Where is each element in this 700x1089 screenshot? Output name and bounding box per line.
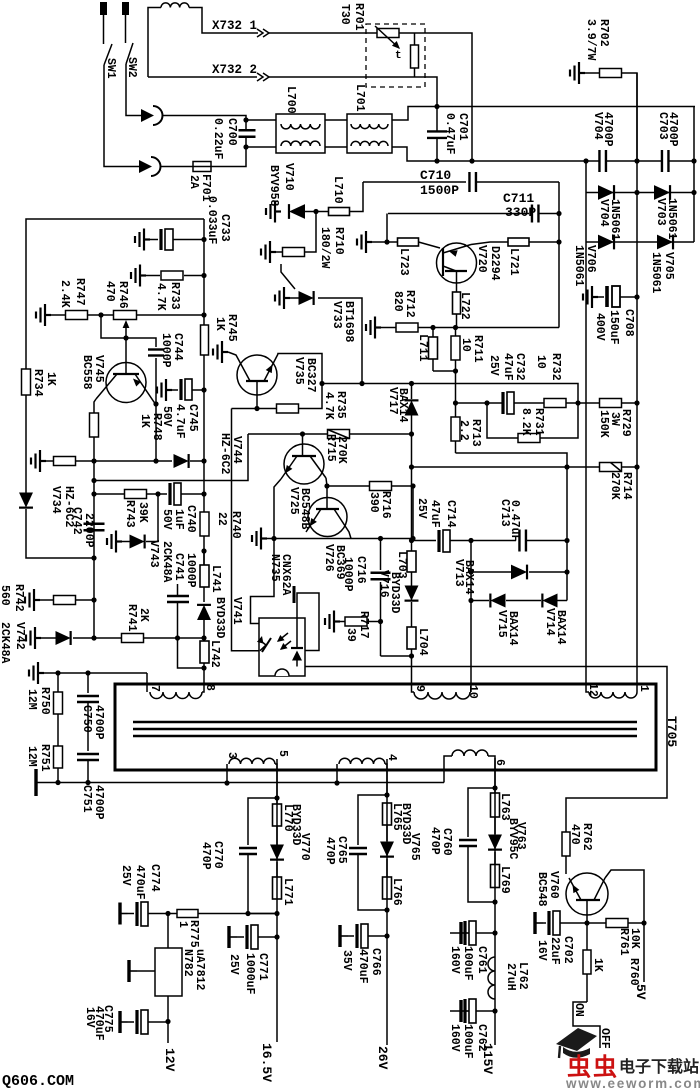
connector X732 pin 1 (257, 29, 263, 37)
bead L711 (429, 337, 438, 359)
svg-text:C708: C708 (622, 309, 635, 337)
svg-text:22: 22 (215, 512, 228, 526)
svg-text:160V: 160V (448, 1024, 461, 1052)
potentiometer R746 (114, 311, 137, 320)
wire (44, 672, 147, 674)
wire (93, 461, 95, 558)
svg-text:47uF: 47uF (428, 500, 441, 528)
svg-text:0.47uF: 0.47uF (508, 500, 521, 542)
svg-text:N782: N782 (181, 949, 194, 977)
svg-text:C750: C750 (80, 705, 93, 733)
svg-text:BYD33D: BYD33D (213, 597, 226, 639)
wire (433, 327, 559, 329)
svg-text:22uF: 22uF (548, 937, 561, 965)
bead L710 (329, 208, 350, 216)
svg-text:L763: L763 (498, 793, 511, 821)
svg-text:C766: C766 (369, 948, 382, 976)
diode V717 BAX14 (405, 400, 419, 415)
svg-text:C733: C733 (218, 214, 231, 242)
capacitor C740 (168, 483, 171, 505)
svg-text:8: 8 (203, 684, 216, 691)
wire (93, 558, 95, 638)
svg-text:3.9/7W: 3.9/7W (584, 19, 597, 61)
svg-text:470P: 470P (323, 837, 336, 865)
svg-text:10: 10 (534, 355, 547, 369)
wire bridge right rail (693, 107, 695, 243)
svg-text:BAX14: BAX14 (554, 610, 567, 645)
resistor R710 (304, 212, 316, 253)
zener V744 HZ-6C2 (174, 454, 189, 468)
svg-text:C745: C745 (186, 404, 199, 432)
svg-text:L723: L723 (397, 248, 410, 276)
svg-text:D2294: D2294 (488, 246, 501, 281)
capacitor C775 (120, 1011, 128, 1033)
wire rectified minus rail (585, 242, 587, 684)
wire left rail top (26, 219, 204, 369)
svg-text:V720: V720 (475, 245, 488, 273)
resistor R748 (94, 399, 96, 413)
svg-text:BT1698: BT1698 (342, 301, 355, 343)
svg-text:V765: V765 (408, 833, 421, 861)
svg-text:R760: R760 (627, 958, 640, 986)
winding 3-5 (226, 764, 228, 783)
line filter L701 (347, 114, 392, 153)
svg-text:2K: 2K (137, 608, 150, 622)
capacitor C750 4700P (87, 673, 89, 693)
wire V725 emitter to LED (251, 539, 275, 624)
svg-text:270K: 270K (335, 436, 348, 464)
svg-text:2A: 2A (187, 175, 200, 189)
svg-text:电子下载站: 电子下载站 (619, 1057, 699, 1076)
svg-text:7: 7 (148, 685, 161, 692)
capacitor C702 (535, 912, 543, 934)
svg-text:SW2: SW2 (125, 57, 138, 78)
winding 12-1 (586, 684, 589, 692)
resistor R750 12M (54, 692, 63, 714)
svg-text:C716: C716 (354, 556, 367, 584)
svg-text:115V: 115V (480, 1043, 495, 1074)
svg-text:4700P: 4700P (92, 705, 105, 740)
transistor V760 BC548 (566, 873, 608, 915)
bead L766 (383, 877, 392, 899)
svg-text:1N5061: 1N5061 (649, 252, 662, 294)
transistor V735 BC327 (237, 355, 277, 395)
inductor L762 27uH (488, 957, 495, 999)
svg-text:R701: R701 (352, 3, 365, 31)
wire phototransistor collector to V760 (305, 667, 667, 833)
resistor R747 (36, 304, 51, 326)
diode V741 BYD33D (197, 605, 211, 620)
resistor R775 (177, 910, 198, 918)
svg-text:3W: 3W (608, 412, 621, 426)
svg-text:R743: R743 (123, 500, 136, 528)
wire (372, 241, 387, 243)
transistor V726 BC369 (308, 498, 347, 537)
svg-text:BYV958: BYV958 (267, 165, 280, 207)
svg-text:V735: V735 (292, 357, 305, 385)
resistor R734 (22, 369, 31, 395)
svg-text:R731: R731 (532, 408, 545, 436)
bead L723 (398, 238, 419, 246)
svg-text:BC327: BC327 (304, 358, 317, 393)
svg-text:2CK48A: 2CK48A (160, 541, 173, 583)
svg-text:C710: C710 (420, 168, 451, 183)
svg-text:R734: R734 (31, 369, 44, 397)
bead L763 (491, 793, 500, 817)
wire (636, 404, 638, 688)
bead L703 (407, 551, 416, 572)
svg-text:V705: V705 (662, 252, 675, 280)
bead L704 (407, 627, 416, 649)
wire (322, 383, 362, 385)
svg-text:400V: 400V (593, 313, 606, 341)
resistor R745 (201, 325, 209, 355)
resistor R733 (131, 265, 146, 287)
diode V706 1N5061 (586, 241, 694, 243)
transistor V745 BC558 (106, 363, 146, 403)
svg-text:35V: 35V (340, 950, 353, 971)
svg-text:470P: 470P (428, 827, 441, 855)
svg-text:1K: 1K (138, 414, 151, 428)
svg-text:12: 12 (586, 683, 599, 697)
svg-text:150uF: 150uF (607, 310, 620, 345)
wire (101, 315, 126, 338)
bead L765 (383, 803, 392, 825)
svg-text:270K: 270K (608, 472, 621, 500)
svg-text:R741: R741 (125, 604, 138, 632)
line filter L700 (276, 114, 325, 153)
bead L722 (453, 292, 461, 314)
capacitor C741 (167, 596, 189, 602)
diode V743 2CK48A (107, 531, 122, 553)
svg-text:R732: R732 (549, 353, 562, 381)
switch ON/OFF (573, 1002, 600, 1048)
svg-text:4700P: 4700P (666, 112, 679, 147)
resistor R731b (487, 403, 518, 438)
wire bridge left rail (585, 161, 587, 242)
svg-text:1000uF: 1000uF (243, 953, 256, 995)
resistor R751 12M (54, 746, 63, 768)
diode V710 BYV958 (266, 201, 281, 223)
wire (274, 479, 281, 539)
svg-text:C714: C714 (444, 500, 457, 528)
wire (167, 996, 169, 1043)
wire (325, 119, 347, 121)
svg-text:R710: R710 (332, 227, 345, 255)
diode V765 BYD33D (380, 842, 394, 857)
capacitor C761 (461, 922, 469, 944)
winding 9-10 (412, 649, 415, 692)
transistor V720 D2294 (437, 243, 477, 283)
secondary ground bus (36, 782, 444, 784)
plug pin P1 (100, 2, 107, 15)
svg-text:BC558: BC558 (80, 355, 93, 390)
svg-text:47uF: 47uF (501, 353, 514, 381)
core line (133, 735, 637, 738)
svg-text:V733: V733 (330, 301, 343, 329)
resistor R716 390 (327, 485, 370, 487)
svg-text:t: t (395, 50, 402, 62)
capacitor C765 470P (358, 795, 387, 845)
wire (203, 390, 205, 461)
posistor R701 (377, 29, 399, 38)
svg-text:V743: V743 (147, 540, 160, 568)
wire (381, 655, 412, 657)
svg-text:T30: T30 (338, 4, 351, 25)
resistor in T30 (411, 45, 419, 68)
wire (412, 540, 437, 542)
svg-text:560: 560 (0, 585, 11, 606)
svg-text:16.5V: 16.5V (259, 1043, 274, 1082)
wire (304, 211, 316, 213)
svg-text:L710: L710 (331, 176, 344, 204)
svg-text:4.7uF: 4.7uF (173, 404, 186, 439)
svg-text:1000P: 1000P (184, 553, 197, 588)
svg-text:2CK48A: 2CK48A (0, 622, 11, 664)
core line (133, 721, 637, 724)
svg-text:R751: R751 (38, 744, 51, 772)
resistor R711 (451, 336, 460, 360)
svg-text:390: 390 (367, 492, 380, 513)
svg-text:L771: L771 (281, 878, 294, 906)
wire X732-1 to lower bus (415, 33, 473, 161)
plug jack J2 (139, 160, 152, 173)
svg-text:C711: C711 (503, 191, 534, 206)
svg-text:5: 5 (276, 750, 289, 757)
ground (129, 960, 137, 982)
svg-text:470: 470 (103, 281, 116, 302)
thyristor V733 BT1698 (275, 287, 290, 309)
svg-text:27uH: 27uH (504, 963, 517, 991)
svg-text:470uF: 470uF (356, 949, 369, 984)
transistor V725 BC548B (284, 444, 324, 484)
capacitor C774 (120, 903, 128, 925)
svg-text:ON: ON (572, 1003, 585, 1017)
wire (433, 370, 456, 372)
connector X732 pin 2 (257, 73, 263, 81)
capacitor C751 4700P (77, 754, 99, 760)
svg-text:R717: R717 (357, 611, 370, 639)
diode V716 BYD33D (405, 586, 419, 601)
core line (133, 728, 637, 731)
svg-text:L769: L769 (498, 866, 511, 894)
ground (252, 528, 267, 550)
capacitor C714 (437, 530, 440, 552)
svg-text:820: 820 (391, 291, 404, 312)
svg-text:C761: C761 (475, 946, 488, 974)
capacitor C700 (243, 117, 248, 122)
diode V714 BAX14 (542, 594, 557, 608)
resistor R717 (325, 611, 340, 633)
svg-text:10: 10 (459, 338, 472, 352)
ground (357, 231, 372, 253)
svg-text:X732 2: X732 2 (212, 63, 257, 77)
wire (269, 32, 377, 34)
capacitor C760 470P (468, 788, 495, 837)
svg-text:C774: C774 (148, 864, 161, 892)
capacitor C771 (229, 926, 237, 948)
resistor R761 10K (587, 922, 606, 924)
svg-text:4.7K: 4.7K (154, 283, 167, 311)
resistor R760 1K (583, 950, 591, 974)
svg-text:16V: 16V (535, 940, 548, 961)
bead L742 (200, 641, 209, 663)
svg-text:V734: V734 (49, 486, 62, 514)
svg-text:CNX62A: CNX62A (279, 554, 292, 596)
svg-text:470: 470 (568, 824, 581, 845)
svg-text:160V: 160V (448, 946, 461, 974)
svg-text:R746: R746 (116, 281, 129, 309)
svg-text:10: 10 (466, 685, 479, 699)
resistor R743 (94, 493, 125, 495)
wire collector to 5V (605, 870, 644, 923)
diode V763 BYV95C (488, 835, 502, 850)
svg-text:25V: 25V (119, 865, 132, 886)
svg-text:1K: 1K (213, 317, 226, 331)
svg-text:1K: 1K (591, 958, 604, 972)
wire base feed (94, 434, 248, 481)
svg-text:R702: R702 (597, 19, 610, 47)
diode V713 BAX14 (471, 571, 511, 573)
svg-text:25V: 25V (487, 355, 500, 376)
wire emitter row (267, 538, 413, 540)
diode V742 2CK48A (26, 627, 41, 649)
capacitor C708 (583, 286, 598, 308)
svg-text:1: 1 (637, 685, 650, 692)
switch SW2 (126, 43, 133, 64)
capacitor C770 470P (248, 798, 277, 845)
winding 4-6a (336, 764, 338, 783)
svg-text:BYD33D: BYD33D (388, 572, 401, 614)
resistor R714 270K (412, 466, 601, 468)
bead L771 (273, 877, 282, 899)
svg-text:R733: R733 (168, 282, 181, 310)
svg-text:1: 1 (176, 921, 189, 928)
wire (494, 758, 496, 1045)
svg-text:0.47uF: 0.47uF (443, 113, 456, 155)
transformer T705 core box (115, 684, 656, 770)
resistor R735 (232, 408, 278, 410)
diode V715 BAX14 (471, 600, 489, 602)
svg-text:L766: L766 (390, 878, 403, 906)
resistor R715 270K (328, 430, 350, 439)
zener V734 HZ-6C2 (19, 493, 33, 508)
svg-text:1000P: 1000P (341, 557, 354, 592)
svg-text:C701: C701 (456, 113, 469, 141)
svg-text:1N5061: 1N5061 (572, 245, 585, 287)
resistor R742 (25, 589, 40, 611)
svg-text:Q606.COM: Q606.COM (2, 1073, 74, 1089)
diode V703 1N5061 (654, 185, 670, 200)
svg-text:OFF: OFF (598, 1028, 611, 1049)
capacitor C762 (461, 1000, 469, 1022)
svg-text:4700P: 4700P (92, 785, 105, 820)
svg-text:R747: R747 (73, 278, 86, 306)
winding 6 (444, 756, 452, 783)
svg-text:HZ-6C2: HZ-6C2 (218, 433, 231, 475)
capacitor C710 (363, 181, 466, 183)
svg-text:www.eeworm.com: www.eeworm.com (565, 1076, 700, 1089)
svg-text:L741: L741 (209, 565, 222, 593)
svg-text:5V: 5V (633, 984, 648, 1000)
svg-text:470P: 470P (199, 842, 212, 870)
svg-text:BAX14: BAX14 (506, 611, 519, 646)
winding 7-8 (146, 673, 148, 692)
capacitor C713 (471, 540, 516, 542)
wire (386, 759, 388, 1045)
svg-text:3: 3 (225, 752, 238, 759)
capacitor C744 (126, 338, 156, 347)
svg-text:L711: L711 (416, 334, 429, 362)
svg-text:25V: 25V (227, 954, 240, 975)
svg-text:1K: 1K (44, 372, 57, 386)
wire (26, 509, 94, 558)
svg-text:25V: 25V (415, 498, 428, 519)
diode V704 1N5061 (586, 192, 694, 194)
svg-text:330P: 330P (505, 205, 536, 220)
svg-text:100uF: 100uF (461, 946, 474, 981)
svg-text:12M: 12M (25, 689, 38, 710)
svg-text:2.4K: 2.4K (58, 280, 71, 308)
svg-text:470uF: 470uF (133, 865, 146, 900)
svg-text:L704: L704 (416, 628, 429, 656)
wire (456, 453, 568, 541)
5V output (643, 923, 645, 982)
resistor R712 (366, 317, 381, 339)
bead L721 (471, 242, 508, 245)
wire (162, 116, 246, 121)
degaussing coil (161, 3, 189, 8)
wire (669, 160, 695, 162)
resistor R713 (451, 417, 460, 441)
svg-text:10K: 10K (628, 928, 641, 949)
svg-text:V742: V742 (13, 622, 26, 650)
svg-text:1N5061: 1N5061 (608, 199, 621, 241)
svg-text:26V: 26V (375, 1046, 390, 1070)
wire rectified plus rail (636, 73, 638, 404)
capacitor C742 (84, 524, 105, 531)
capacitor C701 (434, 104, 439, 109)
svg-text:L701: L701 (353, 84, 366, 112)
bead L769 (491, 865, 500, 888)
svg-text:uA7812: uA7812 (193, 949, 206, 991)
wire LED cathode loop (297, 593, 319, 651)
plug pin P2 (122, 2, 129, 15)
resistor R740 (200, 512, 209, 536)
capacitor V704 4700P (599, 150, 606, 172)
wire V725 base feed (248, 433, 303, 435)
diode V705 1N5061 (657, 235, 673, 250)
wire collector (278, 354, 322, 384)
optocoupler N735 CNX62A (259, 618, 305, 676)
resistor R736 (31, 450, 46, 472)
wire (386, 214, 388, 243)
wire (246, 119, 276, 121)
svg-text:R742: R742 (12, 584, 25, 612)
wire to optocoupler LED (232, 409, 260, 651)
svg-text:BAX14: BAX14 (396, 388, 409, 423)
wire (399, 32, 415, 34)
svg-text:V763: V763 (514, 822, 527, 850)
svg-text:BC548: BC548 (535, 872, 548, 907)
svg-text:1N5061: 1N5061 (665, 198, 678, 240)
regulator N782 uA7812 (167, 914, 169, 949)
svg-text:100uF: 100uF (461, 1024, 474, 1059)
svg-text:L721: L721 (507, 248, 520, 276)
wire (214, 147, 246, 167)
resistor R741 (73, 637, 122, 639)
svg-text:C741: C741 (172, 553, 185, 581)
